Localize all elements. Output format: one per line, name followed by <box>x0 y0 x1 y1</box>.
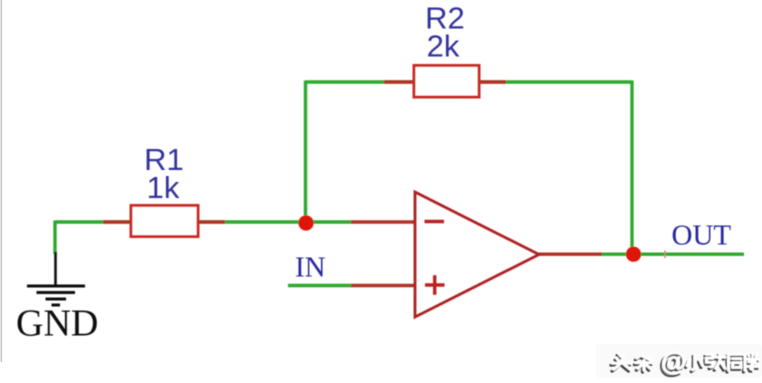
wire: feedback left vertical <box>304 81 307 224</box>
op-amp U1 <box>415 192 539 317</box>
junction: inverting input node <box>298 215 313 230</box>
wire: output net <box>601 252 744 255</box>
left border artifact <box>1 0 3 362</box>
watermark background wash <box>596 344 762 378</box>
wire: IN net <box>288 284 352 287</box>
svg-text:1k: 1k <box>147 170 180 205</box>
wire: non-inverting input pin <box>351 284 416 287</box>
wire: feedback top horizontal <box>306 80 633 83</box>
wire: output pin <box>538 252 602 255</box>
pin end marker <box>664 251 666 259</box>
wire: ground vertical <box>53 221 56 255</box>
同 <box>727 356 743 372</box>
头 <box>611 355 630 371</box>
ground <box>27 252 85 305</box>
张 <box>705 355 724 370</box>
条 <box>634 355 650 372</box>
学 <box>745 355 758 371</box>
junction: output node <box>626 247 641 262</box>
wire: feedback right vertical <box>630 81 633 255</box>
svg-text:@: @ <box>661 346 686 376</box>
svg-text:GND: GND <box>16 303 98 345</box>
resistor R2 <box>384 66 506 98</box>
svg-text:IN: IN <box>295 251 326 283</box>
wire: inverting input pin <box>351 220 416 223</box>
svg-text:2k: 2k <box>427 29 460 64</box>
小 <box>685 356 700 371</box>
wire: input net horizontal <box>55 220 352 223</box>
svg-text:OUT: OUT <box>672 220 732 252</box>
watermark 头条@小张同学 <box>611 346 759 378</box>
resistor R1 <box>103 206 225 237</box>
